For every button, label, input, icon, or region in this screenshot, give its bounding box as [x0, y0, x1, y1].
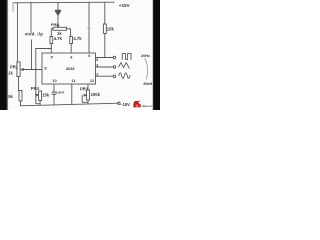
potentiometer PR2 wiper arrow — [57, 25, 59, 27]
waveform sine wave — [119, 73, 130, 79]
wire diode feed from rail — [57, 3, 59, 10]
terminal pin3 circle — [113, 66, 116, 69]
paper background — [0, 0, 160, 110]
capacitor C1 0.0047 — [52, 92, 56, 94]
wire pin6 V+ drop — [88, 2, 90, 53]
svg-text:8038: 8038 — [66, 67, 74, 71]
svg-text:−15V: −15V — [120, 102, 130, 107]
svg-text:0.0047: 0.0047 — [56, 91, 65, 95]
wire PR4 bottom lead — [39, 101, 41, 106]
wire PR3 wiper loop — [82, 95, 88, 102]
IC U1 8038 box — [42, 53, 96, 84]
svg-text:PR3: PR3 — [80, 87, 89, 92]
wire R3 bottom to rail — [20, 101, 22, 106]
svg-text:4.7k: 4.7k — [54, 36, 63, 41]
waveform triangle wave — [119, 63, 130, 69]
waveform square wave — [122, 54, 131, 60]
svg-text:PR2: PR2 — [51, 22, 59, 27]
watermark logo red — [133, 100, 156, 108]
wire mod input lower stub to pin8 wire — [31, 40, 33, 70]
wire pin2 output — [96, 75, 114, 77]
wire pin12 to PR3 — [87, 84, 89, 90]
wire pin3 output — [96, 66, 114, 68]
potentiometer PR2 body — [53, 27, 67, 30]
IC U1 labels — [44, 53, 99, 83]
wire PR1 wiper to pin8 — [22, 69, 43, 71]
wire pin10 to capacitor — [53, 84, 55, 92]
resistor R2 4.7k right — [70, 37, 73, 44]
wire pin5 node to W2 — [36, 49, 52, 96]
wire V+ drop to PR1 top — [17, 3, 19, 62]
resistor R3 5k bottom left — [19, 91, 22, 102]
diode D1 — [55, 10, 60, 15]
svg-text:+15V: +15V — [119, 3, 131, 8]
wire top rail +15V — [13, 1, 114, 4]
black border right — [152, 0, 153, 110]
wire frequency range arrow — [145, 59, 148, 79]
svg-text:100k: 100k — [91, 92, 101, 97]
wire R2 bottom to pin4 — [70, 44, 72, 54]
resistor R4 15k — [103, 24, 106, 34]
wire PR3 bottom lead — [87, 100, 89, 104]
svg-text:mod. i/p: mod. i/p — [25, 31, 43, 36]
potentiometer PR1 wiper arrow — [21, 69, 23, 71]
wire PR1 bottom to R3 — [19, 77, 21, 91]
wire pin9 output — [96, 57, 114, 59]
svg-text:10: 10 — [52, 78, 56, 83]
svg-text:PR4: PR4 — [31, 86, 40, 91]
potentiometer PR3 wiper arrow — [84, 94, 86, 96]
black border left — [0, 0, 7, 110]
wire mod input upper stub — [30, 3, 32, 33]
svg-text:4.7k: 4.7k — [73, 36, 82, 41]
svg-text:5k: 5k — [8, 94, 13, 99]
potentiometer PR4 body — [39, 91, 42, 101]
wire pin11 to rail — [71, 84, 73, 105]
potentiometer PR1 body — [17, 62, 20, 77]
wire capacitor to rail — [53, 94, 55, 105]
wire 15k feed from rail — [104, 2, 106, 24]
svg-text:PR1: PR1 — [10, 65, 19, 70]
wire PR4 wiper loop — [36, 95, 40, 104]
wire bottom rail -15V — [21, 103, 119, 106]
resistor R1 4.7k left — [50, 37, 53, 44]
wire PR2 left lead — [51, 29, 53, 37]
svg-text:15k: 15k — [107, 27, 115, 32]
svg-text:15k: 15k — [42, 93, 50, 98]
wire 15k to pin9 node — [104, 34, 106, 58]
wire pin6 tick — [88, 28, 91, 30]
wire left rail end stub — [12, 3, 14, 11]
svg-text:20Hz: 20Hz — [141, 54, 150, 58]
terminal pin9 circle — [113, 56, 116, 59]
wire PR2 right lead — [67, 29, 71, 37]
wire diode to PR2 wiper — [57, 16, 59, 25]
svg-text:1k: 1k — [8, 70, 13, 75]
terminal pin2 circle — [113, 75, 116, 78]
potentiometer PR4 wiper arrow — [36, 94, 38, 96]
wire R1 bottom to pin5 — [50, 44, 52, 54]
potentiometer PR3 body — [87, 90, 90, 100]
terminal bottom rail circle — [118, 102, 120, 104]
